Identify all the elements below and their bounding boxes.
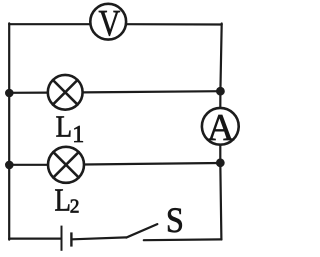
wire L2 branch right xyxy=(84,163,220,165)
wire top-left segment xyxy=(9,23,90,25)
lamp L2 circle xyxy=(48,147,84,183)
svg-text:L: L xyxy=(56,108,72,143)
voltmeter V circle xyxy=(90,4,126,40)
battery long plate xyxy=(61,226,63,251)
ammeter A circle xyxy=(202,108,239,145)
wire battery to switch xyxy=(73,237,127,239)
node left junction L2 xyxy=(5,161,14,170)
wire left vertical xyxy=(8,23,10,239)
wire top-right segment xyxy=(126,23,222,25)
wire right vertical upper xyxy=(220,24,221,108)
svg-text:S: S xyxy=(166,200,184,240)
wire bottom-left segment xyxy=(9,238,60,240)
wire L1 branch left xyxy=(9,91,48,93)
svg-text:V: V xyxy=(99,3,121,44)
switch S blade xyxy=(126,224,157,238)
wire L2 branch left xyxy=(9,164,48,166)
lamp L1 cross xyxy=(53,80,78,105)
svg-text:A: A xyxy=(207,107,235,149)
wire switch to bottom-right xyxy=(144,238,222,241)
svg-text:L: L xyxy=(55,182,71,217)
node junction below ammeter xyxy=(216,158,225,167)
lamp L1 circle xyxy=(48,75,83,110)
node junction above ammeter xyxy=(216,87,225,96)
lamp L2 cross xyxy=(53,152,78,177)
wire L1 branch right xyxy=(83,91,221,92)
node left junction L1 xyxy=(5,89,14,98)
battery short plate xyxy=(70,232,72,246)
svg-text:2: 2 xyxy=(70,196,80,217)
wire right vertical lower xyxy=(220,145,221,240)
svg-text:1: 1 xyxy=(72,122,84,148)
